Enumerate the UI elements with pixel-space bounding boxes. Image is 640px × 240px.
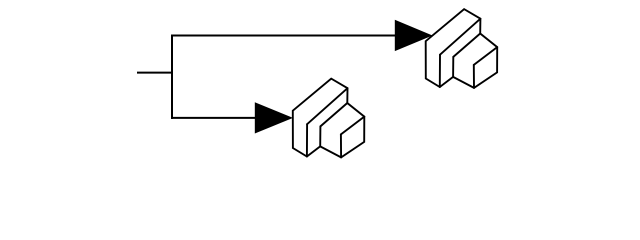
- device icon bottom (3D stepped block): [293, 79, 365, 158]
- wire top branch: [172, 35, 396, 37]
- arrowhead top: [395, 20, 433, 51]
- wire trunk vertical: [171, 36, 173, 118]
- wire input stub: [138, 72, 172, 74]
- arrowhead bottom: [255, 102, 293, 133]
- wire bottom branch: [172, 117, 256, 119]
- device icon top (3D stepped block): [426, 9, 498, 88]
